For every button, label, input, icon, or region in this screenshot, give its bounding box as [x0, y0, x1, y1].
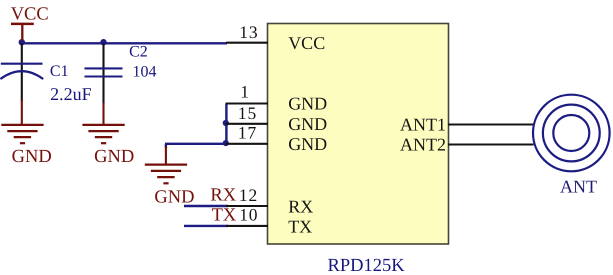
svg-text:TX: TX: [288, 216, 312, 236]
svg-text:1: 1: [240, 81, 250, 101]
svg-text:GND: GND: [94, 147, 134, 167]
svg-text:C1: C1: [50, 63, 69, 80]
svg-text:GND: GND: [12, 147, 52, 167]
svg-text:2.2uF: 2.2uF: [50, 84, 92, 104]
svg-text:VCC: VCC: [11, 4, 49, 24]
svg-text:C2: C2: [129, 44, 148, 61]
svg-text:104: 104: [133, 64, 157, 81]
svg-text:GND: GND: [288, 93, 327, 113]
svg-text:RX: RX: [210, 186, 236, 206]
svg-text:ANT: ANT: [560, 176, 597, 196]
svg-text:GND: GND: [288, 114, 327, 134]
svg-text:13: 13: [239, 22, 258, 42]
svg-text:RX: RX: [288, 196, 313, 216]
svg-text:17: 17: [238, 123, 257, 143]
svg-text:RPD125K: RPD125K: [328, 256, 406, 275]
svg-text:GND: GND: [288, 134, 327, 154]
svg-text:10: 10: [239, 204, 258, 224]
svg-text:ANT1: ANT1: [400, 114, 446, 134]
svg-text:15: 15: [238, 103, 257, 123]
svg-text:GND: GND: [154, 187, 194, 207]
svg-text:VCC: VCC: [288, 33, 325, 53]
svg-text:TX: TX: [212, 206, 237, 226]
svg-text:ANT2: ANT2: [400, 134, 446, 154]
svg-text:12: 12: [239, 185, 258, 205]
